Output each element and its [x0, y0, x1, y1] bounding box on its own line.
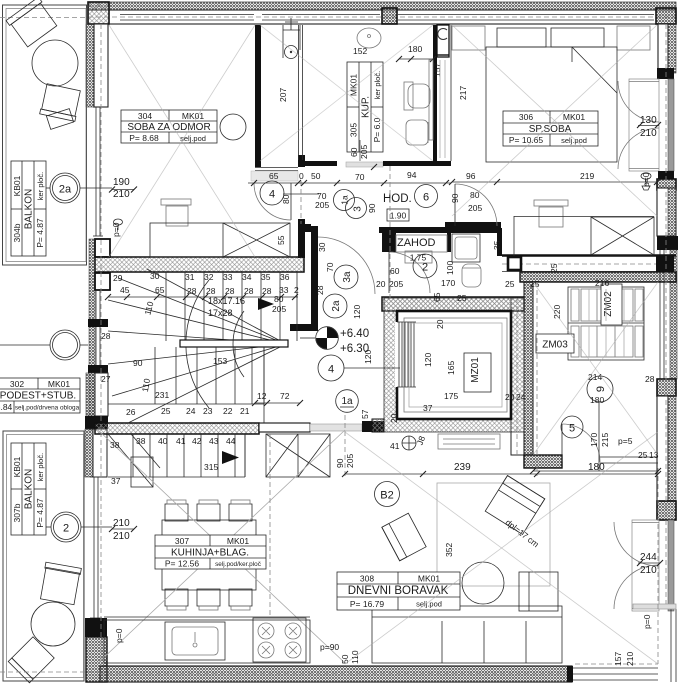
svg-text:50: 50 — [340, 654, 350, 664]
wall ZM02 left — [511, 298, 524, 455]
svg-text:0: 0 — [299, 171, 304, 181]
svg-text:45: 45 — [120, 285, 130, 295]
stairs upper flight treads — [165, 272, 167, 341]
wall landing top stub — [298, 224, 311, 232]
stairs lower flight treads — [132, 434, 134, 477]
svg-text:205: 205 — [345, 454, 355, 468]
wall pier soba nook — [298, 219, 305, 258]
node pier right1 — [657, 68, 674, 79]
door arc SOBA — [290, 183, 292, 220]
faint room diagonals DNEVNI — [345, 432, 658, 664]
section screw symbol — [641, 173, 651, 179]
svg-text:307: 307 — [175, 536, 189, 546]
svg-text:120: 120 — [363, 350, 373, 364]
svg-text:p=0: p=0 — [111, 222, 121, 237]
stairs lower landing outline — [131, 457, 153, 487]
svg-text:210: 210 — [113, 518, 130, 529]
circle 4 lobby — [318, 355, 344, 381]
living round table — [462, 562, 504, 604]
balcony lower chair 1 — [39, 562, 81, 605]
circle 4 left of KUP — [260, 181, 284, 205]
furniture SP.SOBA bed — [486, 47, 617, 162]
svg-text:P= 4.87: P= 4.87 — [35, 218, 45, 248]
stairs direction arrow lower — [222, 451, 239, 464]
door arc ZAHOD — [389, 252, 430, 293]
svg-text:ZM02: ZM02 — [603, 291, 614, 317]
svg-text:p=0: p=0 — [642, 614, 652, 629]
svg-text:120: 120 — [423, 353, 433, 367]
wall beam lobby bottom — [259, 423, 310, 432]
stairs winder fan lines — [147, 269, 286, 344]
svg-text:P= 6.0: P= 6.0 — [372, 117, 382, 142]
label box BALKON upper rotated — [11, 161, 46, 256]
svg-text:315: 315 — [204, 462, 218, 472]
circle empty left — [50, 330, 80, 360]
wire left exterior wall — [86, 24, 94, 107]
balcony lower chair 2 — [8, 637, 54, 683]
wall landing bottom stub — [290, 324, 318, 331]
furniture KUP washbasin — [357, 28, 381, 48]
svg-text:239: 239 — [454, 462, 471, 473]
svg-text:37: 37 — [423, 403, 433, 413]
wire left wall hatch mid — [86, 373, 95, 416]
svg-text:80: 80 — [281, 194, 291, 204]
wire top exterior wall hatch — [88, 2, 676, 10]
svg-text:17x28: 17x28 — [208, 308, 233, 318]
svg-text:38: 38 — [136, 436, 146, 446]
wardrobe slats extra — [588, 289, 590, 321]
svg-text:44: 44 — [226, 436, 236, 446]
svg-text:30: 30 — [150, 271, 160, 281]
svg-text:170: 170 — [441, 278, 455, 288]
node pier right4 — [657, 379, 676, 396]
wire left wall window 2 — [95, 290, 97, 319]
svg-text:2: 2 — [63, 523, 69, 535]
living armchair 2 — [485, 476, 545, 535]
wire top wall core — [88, 10, 676, 24]
door arcs SP.SOBA window right — [618, 81, 659, 122]
label box PODEST+STUB — [0, 378, 80, 413]
furniture ZAHOD toilet — [462, 264, 481, 287]
wire bottom exterior wall — [100, 666, 572, 682]
wire right glazing lower door — [632, 520, 659, 611]
svg-text:KUHINJA+BLAG.: KUHINJA+BLAG. — [171, 548, 249, 559]
svg-text:170: 170 — [589, 433, 599, 447]
wardrobe X sp.soba corner — [591, 217, 654, 255]
svg-text:110: 110 — [350, 650, 360, 664]
node pier top-mid — [382, 8, 397, 24]
svg-text:157: 157 — [613, 652, 623, 666]
wall landing left vertical — [311, 226, 318, 331]
svg-text:32: 32 — [204, 272, 214, 282]
balcony upper footstool — [46, 109, 73, 130]
svg-text:B2: B2 — [380, 490, 393, 502]
label box KUHINJA — [155, 535, 266, 569]
svg-text:20: 20 — [505, 392, 515, 402]
svg-text:37: 37 — [111, 476, 121, 486]
door arc hall to SP.SOBA — [455, 184, 497, 226]
svg-text:20: 20 — [435, 319, 445, 329]
node small column square — [508, 257, 521, 270]
svg-text:21: 21 — [240, 406, 250, 416]
furniture KUP bidet — [406, 120, 428, 145]
svg-text:31: 31 — [185, 272, 195, 282]
svg-text:ker ploč.: ker ploč. — [373, 71, 382, 99]
svg-text:2a: 2a — [331, 300, 342, 312]
sideboard below shaft — [438, 434, 500, 449]
svg-text:65: 65 — [269, 171, 279, 181]
svg-text:HOD.: HOD. — [383, 193, 412, 205]
kitchen faint diagonals — [98, 430, 345, 663]
svg-text:90: 90 — [367, 203, 377, 213]
wall ZM02 bottom hatch — [524, 455, 562, 468]
svg-text:305: 305 — [349, 123, 359, 137]
svg-text:selj.pod/drvena obloga: selj.pod/drvena obloga — [15, 405, 80, 412]
svg-text:120: 120 — [352, 305, 362, 319]
svg-text:25: 25 — [161, 406, 171, 416]
svg-text:205: 205 — [315, 200, 329, 210]
svg-text:27: 27 — [101, 374, 111, 384]
node pier right3 — [657, 236, 678, 250]
svg-text:1a: 1a — [341, 396, 353, 407]
svg-text:352: 352 — [444, 543, 454, 557]
svg-text:216: 216 — [595, 278, 609, 288]
balcony upper outline — [3, 5, 87, 265]
svg-text:1.90: 1.90 — [390, 211, 407, 221]
svg-text:p=0: p=0 — [641, 172, 651, 187]
balcony upper table — [32, 40, 78, 86]
svg-text:307b: 307b — [12, 503, 22, 522]
node pier left mid2 — [85, 416, 108, 429]
faint room diagonals SOBA — [109, 25, 255, 257]
svg-text:153: 153 — [213, 356, 227, 366]
living armchair 1 — [382, 513, 426, 561]
svg-text:42: 42 — [192, 436, 202, 446]
svg-text:25: 25 — [638, 450, 648, 460]
svg-text:35: 35 — [492, 240, 502, 250]
faint room diagonals KUP — [260, 25, 433, 161]
stairs handrail — [180, 340, 288, 347]
svg-text:12: 12 — [257, 391, 267, 401]
door arc ZM02 — [562, 424, 600, 462]
svg-text:180: 180 — [408, 44, 422, 54]
furniture SP.SOBA nightstand right — [617, 26, 650, 50]
svg-text:215: 215 — [600, 433, 610, 447]
svg-text:41: 41 — [176, 436, 186, 446]
svg-text:40: 40 — [158, 436, 168, 446]
svg-text:26: 26 — [126, 407, 136, 417]
closet below lobby diagonals — [266, 434, 330, 477]
svg-text:SOBA ZA ODMOR: SOBA ZA ODMOR — [127, 122, 210, 133]
svg-text:231: 231 — [155, 390, 169, 400]
node pier top-left — [88, 2, 109, 24]
svg-text:308: 308 — [360, 574, 374, 584]
svg-text:57: 57 — [360, 409, 370, 419]
svg-text:210: 210 — [640, 128, 657, 139]
svg-text:MK01: MK01 — [227, 536, 249, 546]
svg-text:24: 24 — [516, 392, 526, 402]
svg-text:3a: 3a — [342, 271, 353, 283]
furniture ZAHOD counter — [396, 235, 447, 252]
node pier band right end — [656, 256, 674, 272]
svg-text:28: 28 — [315, 285, 325, 295]
svg-text:180: 180 — [590, 395, 604, 405]
svg-text:P= 8.68: P= 8.68 — [129, 133, 159, 143]
circle 3a — [334, 265, 358, 289]
svg-text:33: 33 — [223, 272, 233, 282]
svg-text:25: 25 — [549, 263, 559, 273]
svg-text:70: 70 — [355, 172, 365, 182]
faint room diagonals SP.SOBA — [452, 25, 657, 216]
svg-text:210: 210 — [113, 531, 130, 542]
svg-text:3: 3 — [353, 206, 364, 212]
furniture dining table — [162, 520, 256, 590]
svg-text:38: 38 — [110, 440, 120, 450]
wall ZM02 top hatch — [520, 272, 676, 282]
wire right wall zm02 window — [659, 250, 661, 379]
balcony lower outline — [3, 431, 84, 681]
svg-text:2: 2 — [422, 262, 428, 274]
winder small arc — [233, 311, 244, 377]
svg-text:P= 10.65: P= 10.65 — [509, 135, 544, 145]
svg-text:25: 25 — [457, 293, 467, 303]
wire dashed bottom axis through balcony — [0, 671, 100, 673]
svg-text:p=5: p=5 — [618, 436, 633, 446]
wire bottom window right — [573, 667, 658, 669]
section screw symbol soba — [114, 219, 123, 225]
svg-text:205: 205 — [468, 203, 482, 213]
svg-text:1a: 1a — [340, 195, 350, 205]
wall hall/sp.soba y222 — [445, 222, 501, 228]
svg-text:36: 36 — [280, 272, 290, 282]
label box ZM03 — [536, 334, 574, 353]
svg-text:157: 157 — [432, 63, 442, 77]
svg-text:KB01: KB01 — [12, 456, 22, 477]
svg-text:306: 306 — [519, 112, 533, 122]
wire right wall mid — [657, 396, 668, 501]
survey marker +6.40 — [316, 327, 339, 350]
dining chairs top — [165, 504, 188, 521]
duct shaft next to KUP — [437, 25, 449, 57]
stairs winder arc — [186, 280, 209, 408]
svg-text:MK01: MK01 — [418, 574, 440, 584]
circle B2 — [375, 482, 400, 507]
lamp circle SOBA — [220, 114, 246, 140]
svg-text:selj.pod/ker.ploč: selj.pod/ker.ploč — [215, 561, 262, 568]
svg-text:130: 130 — [640, 115, 657, 126]
wall shaft leg left — [372, 419, 384, 432]
stairs mid flight treads — [154, 347, 156, 404]
svg-text:20: 20 — [389, 413, 399, 423]
wire right wall sp.soba window — [629, 79, 659, 171]
svg-text:+6.40: +6.40 — [340, 328, 369, 340]
svg-text:25: 25 — [505, 279, 515, 289]
svg-text:6: 6 — [423, 192, 429, 204]
svg-text:P= 4.87: P= 4.87 — [35, 498, 45, 528]
svg-text:207: 207 — [278, 88, 288, 102]
label box DNEVNI BORAVAK — [337, 572, 460, 610]
svg-text:190: 190 — [113, 177, 130, 188]
svg-text:43: 43 — [209, 436, 219, 446]
svg-text:244: 244 — [640, 552, 657, 563]
node pier left mid1 — [89, 239, 95, 430]
wall ZAHOD top — [379, 227, 501, 233]
circles 1a 3 — [334, 190, 355, 211]
svg-text:2: 2 — [294, 285, 299, 295]
svg-text:210: 210 — [640, 565, 657, 576]
svg-text:ker ploč.: ker ploč. — [36, 172, 45, 200]
svg-text:205: 205 — [359, 145, 369, 159]
wall ZAHOD left stub — [382, 233, 396, 252]
svg-text:ZAHOD: ZAHOD — [397, 237, 436, 249]
door arcs living french door — [614, 522, 658, 566]
svg-text:210: 210 — [113, 189, 130, 200]
svg-text:18x17.16: 18x17.16 — [208, 296, 245, 306]
svg-text:4: 4 — [269, 189, 275, 201]
furniture SOBA desk — [161, 199, 191, 205]
svg-text:96: 96 — [466, 171, 476, 181]
svg-text:34: 34 — [242, 272, 252, 282]
svg-text:304b: 304b — [12, 223, 22, 242]
svg-text:KUP.: KUP. — [361, 96, 372, 118]
svg-text:60: 60 — [349, 147, 359, 157]
wire ZM02 bottom window — [600, 456, 658, 458]
wall KUP bottom right segment — [383, 161, 451, 166]
svg-text:4: 4 — [328, 364, 334, 376]
svg-text:9: 9 — [595, 386, 607, 392]
svg-text:BALKON: BALKON — [24, 469, 35, 510]
svg-text:214: 214 — [588, 372, 602, 382]
circle 1a lobby low — [336, 390, 359, 413]
svg-text:selj.pod: selj.pod — [416, 600, 442, 609]
wall lobby top hatch below ZAHOD — [382, 297, 524, 311]
circle 2 ZAHOD — [413, 254, 437, 278]
box 1.90 — [387, 209, 409, 221]
svg-text:13: 13 — [649, 450, 659, 460]
svg-text:KB01: KB01 — [12, 175, 22, 196]
towel rail KUP — [429, 60, 433, 140]
svg-text:DNEVNI BORAVAK: DNEVNI BORAVAK — [348, 585, 449, 597]
wire dashed centerline zm02 left wall — [516, 298, 518, 455]
wire top wall window glazing — [120, 14, 254, 16]
wire dashed centerlines walls — [100, 24, 102, 666]
kitchen counter — [104, 620, 310, 663]
svg-text:205: 205 — [272, 304, 286, 314]
svg-text:22: 22 — [223, 406, 233, 416]
wall SOBA bottom hatch — [95, 257, 304, 272]
dining chairs bottom — [165, 589, 188, 606]
node pier right2 — [658, 171, 674, 179]
furniture SP.SOBA desk chair — [534, 200, 568, 206]
svg-text:72: 72 — [280, 391, 290, 401]
circle 6 HOD — [415, 185, 438, 208]
svg-text:2a: 2a — [59, 184, 72, 196]
wire right exterior wall top — [668, 24, 676, 73]
svg-text:304: 304 — [138, 111, 152, 121]
svg-text:41: 41 — [390, 441, 400, 451]
dim ticks — [105, 56, 663, 566]
svg-text:35: 35 — [261, 272, 271, 282]
svg-text:23: 23 — [203, 406, 213, 416]
wall band below sp.soba — [502, 254, 676, 256]
elevator shaft door opening — [395, 322, 399, 387]
svg-text:ker ploč.: ker ploč. — [36, 453, 45, 481]
svg-text:MK01: MK01 — [182, 111, 204, 121]
kitchen sink — [165, 622, 225, 660]
balcony upper chair 1 — [6, 0, 58, 48]
label box BALKON lower rotated — [11, 443, 46, 535]
label box MZ01 rotated — [464, 353, 491, 392]
svg-text:29: 29 — [113, 273, 123, 283]
node pier left low — [85, 618, 107, 637]
living room carpet — [437, 483, 550, 586]
label box SOBA ZA ODMOR — [121, 110, 217, 143]
svg-text:P= 12.56: P= 12.56 — [165, 559, 200, 569]
svg-text:MZ01: MZ01 — [470, 357, 481, 383]
svg-text:60: 60 — [390, 266, 400, 276]
svg-text:P= 16.79: P= 16.79 — [350, 599, 385, 609]
furniture KUP shower — [282, 25, 284, 58]
svg-text:94: 94 — [407, 170, 417, 180]
wall SP.SOBA left thin — [450, 25, 452, 161]
wall stairs bottom hatch — [95, 423, 259, 434]
svg-text:selj.pod: selj.pod — [561, 136, 587, 145]
svg-text:p=90: p=90 — [320, 642, 339, 652]
svg-text:6.84: 6.84 — [0, 402, 13, 412]
svg-text:65: 65 — [155, 285, 165, 295]
furniture SOBA bed — [150, 223, 290, 257]
wire dashed axis kitchen — [269, 434, 271, 618]
wire right glazing bottom — [670, 609, 672, 682]
circle 2a mid — [323, 294, 347, 318]
wall KUP bottom left segment — [255, 167, 298, 169]
kitchen stove — [253, 618, 306, 662]
svg-text:BALKON: BALKON — [24, 189, 35, 230]
svg-text:90: 90 — [133, 358, 143, 368]
svg-text:65: 65 — [432, 292, 442, 302]
stairs direction arrow upper — [258, 298, 274, 310]
dim 180 zm02 line — [533, 470, 658, 472]
svg-text:MK01: MK01 — [563, 112, 585, 122]
svg-text:24: 24 — [186, 406, 196, 416]
svg-text:175: 175 — [444, 391, 458, 401]
wall KUP left — [255, 25, 261, 167]
elevator shaft MZ01 walls — [384, 298, 524, 432]
furniture KUP toilet — [404, 82, 413, 110]
svg-text:28: 28 — [101, 331, 111, 341]
box 1.75 — [405, 251, 432, 263]
svg-text:165: 165 — [446, 361, 456, 375]
svg-text:219: 219 — [580, 171, 594, 181]
svg-text:5: 5 — [569, 423, 575, 435]
svg-text:152: 152 — [353, 46, 367, 56]
svg-text:30: 30 — [317, 242, 327, 252]
wire left wall window upper — [95, 107, 97, 236]
svg-text:28: 28 — [645, 374, 655, 384]
svg-text:28: 28 — [262, 286, 272, 296]
svg-text:210: 210 — [625, 652, 635, 666]
svg-text:ZM03: ZM03 — [542, 340, 568, 351]
svg-text:p=0: p=0 — [114, 628, 124, 643]
duct shaft shelves — [439, 60, 441, 158]
circle 2 lower balcony — [51, 512, 81, 542]
label ZM02 rotated — [601, 284, 622, 325]
svg-text:20: 20 — [376, 279, 386, 289]
faint room diagonals ZM02 — [533, 282, 658, 455]
label box KUP rotated — [347, 62, 383, 152]
wire left wall window kitchen — [93, 477, 95, 618]
living couch — [372, 606, 562, 663]
